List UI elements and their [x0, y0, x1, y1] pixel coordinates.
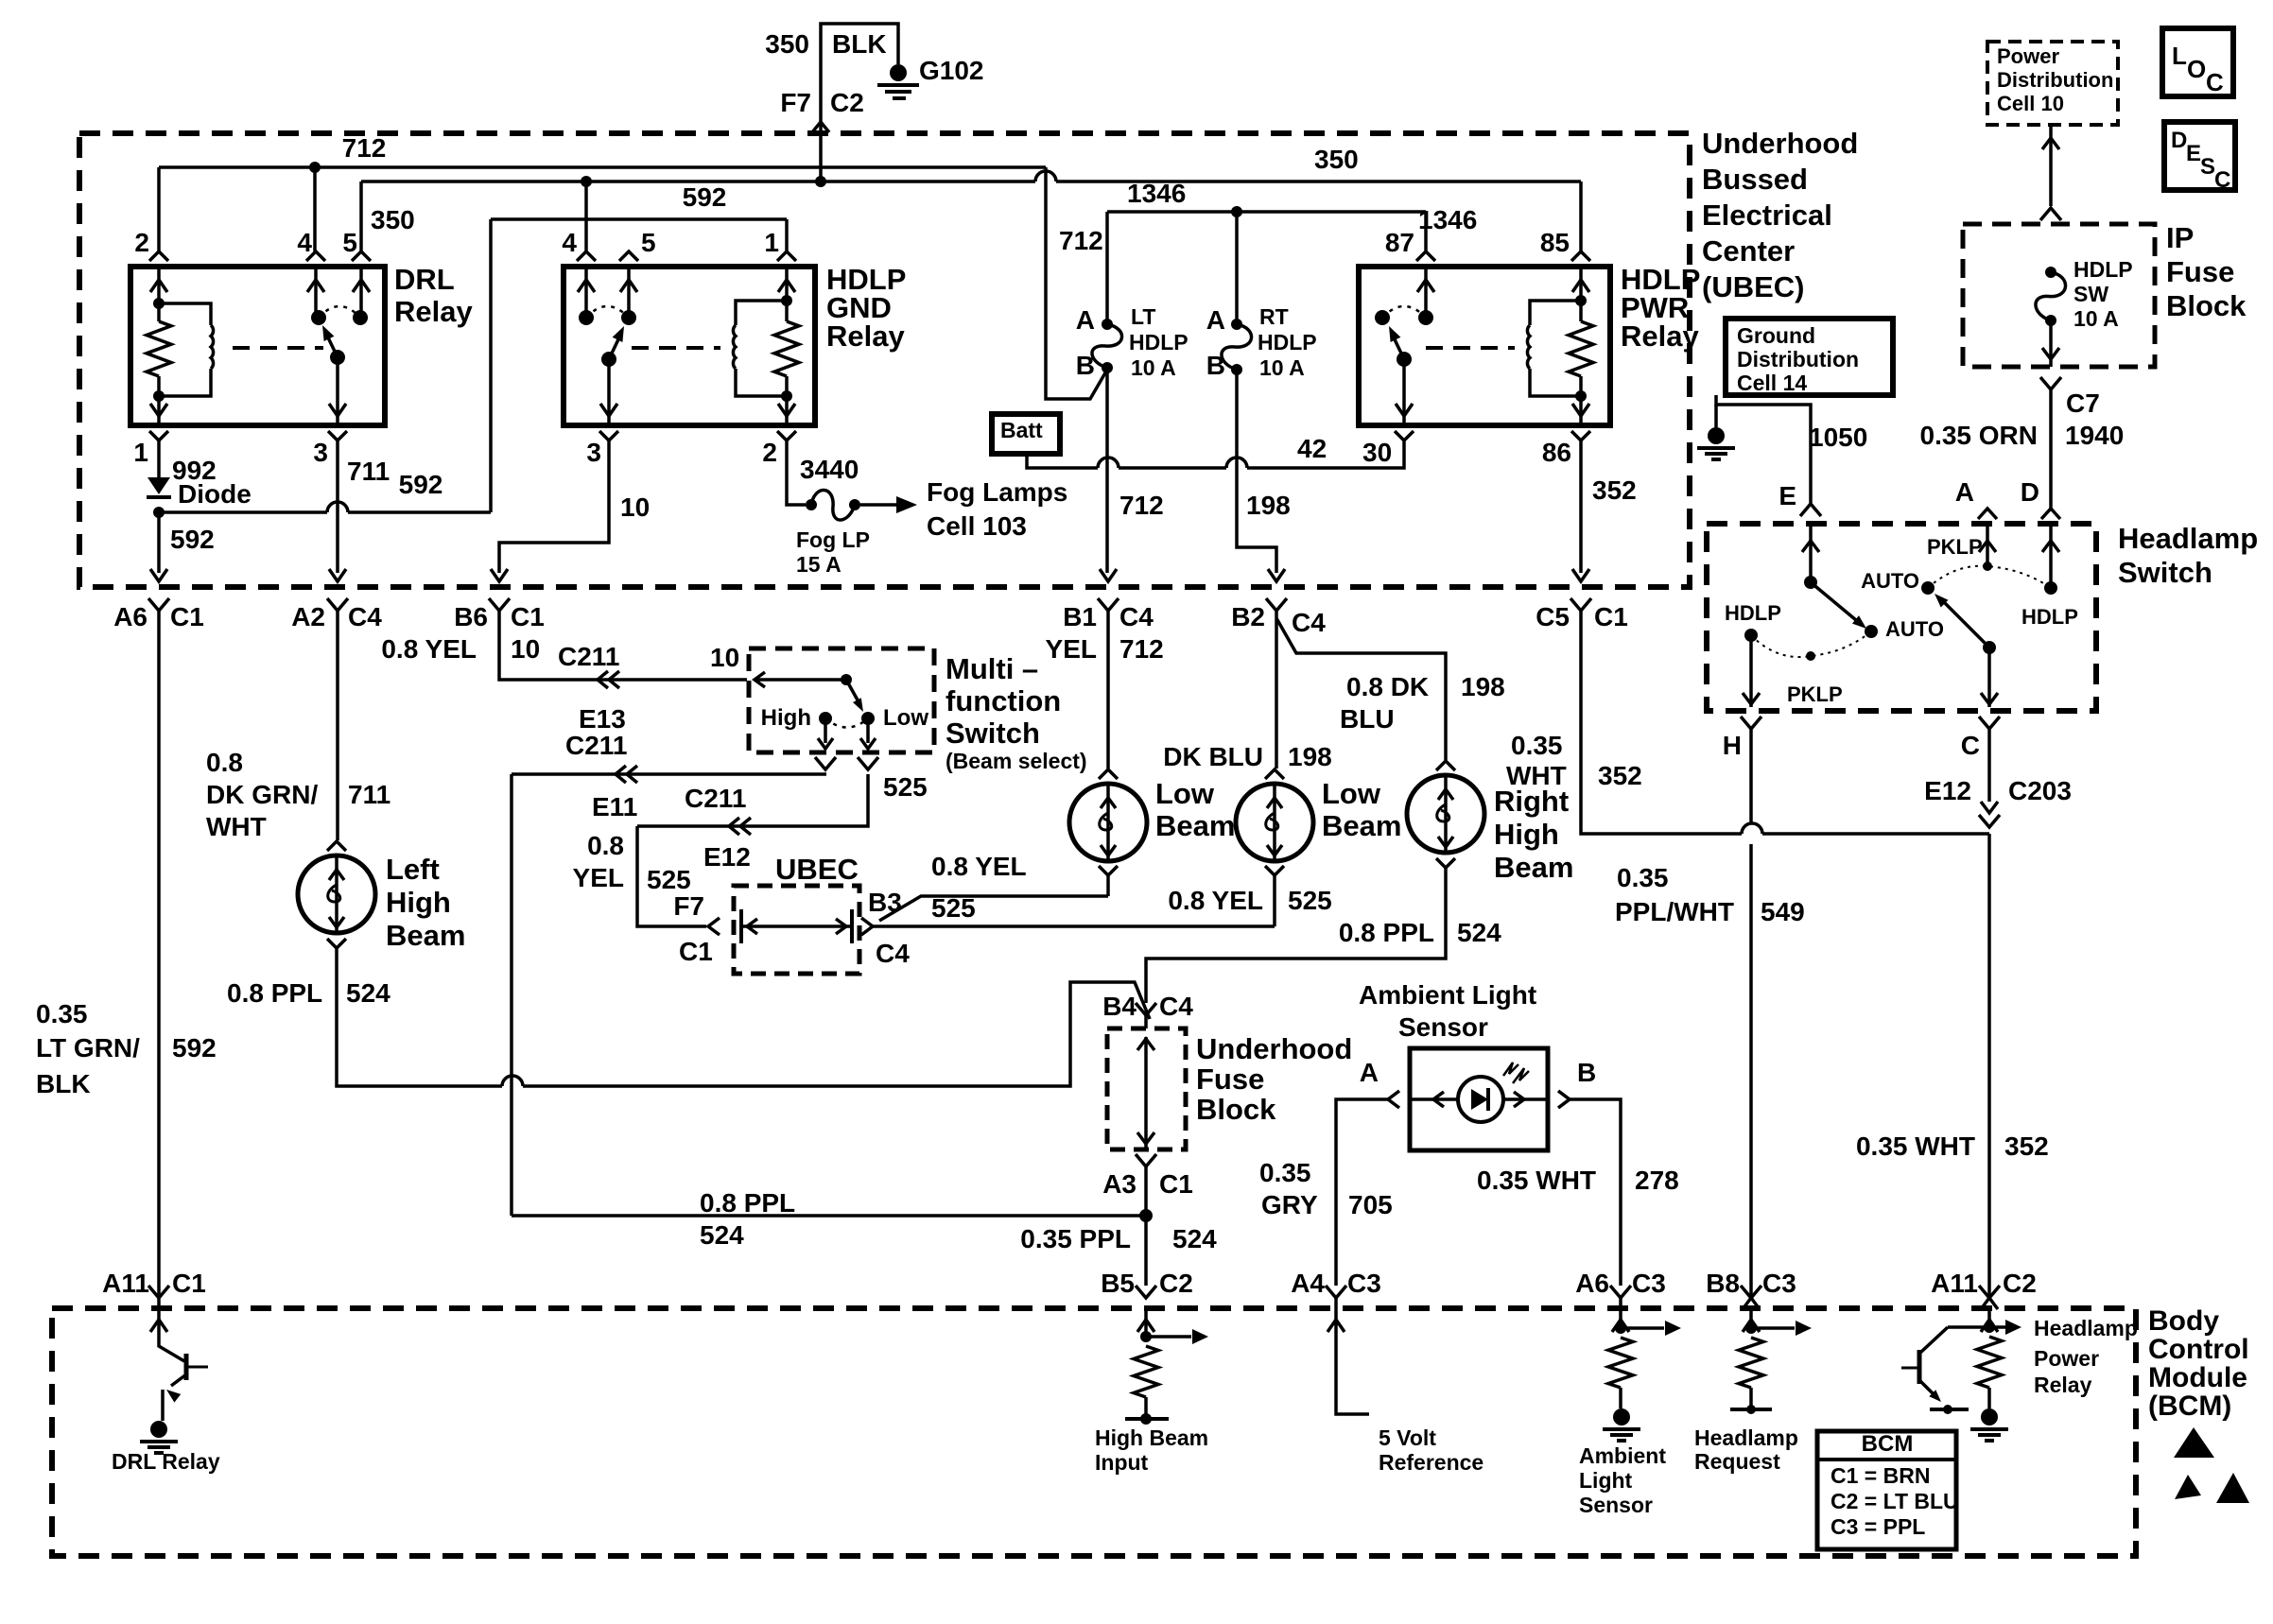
svg-text:C211: C211	[565, 731, 627, 760]
svg-text:Beam: Beam	[1322, 809, 1401, 842]
svg-text:C203: C203	[2008, 776, 2072, 805]
svg-text:Left: Left	[386, 853, 440, 886]
svg-text:F7: F7	[780, 88, 811, 117]
svg-text:A6: A6	[113, 602, 147, 631]
svg-text:Fuse: Fuse	[2166, 255, 2234, 288]
svg-text:C4: C4	[1119, 602, 1154, 631]
svg-text:A: A	[1206, 305, 1225, 335]
svg-text:C1 = BRN: C1 = BRN	[1831, 1463, 1930, 1488]
svg-text:Relay: Relay	[394, 295, 473, 328]
svg-text:C: C	[2206, 68, 2224, 96]
svg-text:Body: Body	[2148, 1305, 2219, 1337]
svg-text:350: 350	[1314, 145, 1359, 174]
svg-text:C211: C211	[558, 642, 619, 671]
svg-text:B4: B4	[1102, 992, 1136, 1021]
svg-text:352: 352	[1598, 761, 1642, 790]
svg-text:Switch: Switch	[946, 717, 1040, 750]
svg-text:Reference: Reference	[1379, 1450, 1484, 1475]
svg-text:Bussed: Bussed	[1702, 163, 1808, 196]
svg-text:RT: RT	[1259, 304, 1289, 329]
svg-text:G102: G102	[919, 56, 984, 85]
svg-text:Center: Center	[1702, 234, 1795, 268]
svg-text:C1: C1	[170, 602, 204, 631]
svg-text:711: 711	[347, 457, 390, 486]
svg-text:Request: Request	[1694, 1449, 1780, 1474]
svg-text:High Beam: High Beam	[1095, 1425, 1208, 1450]
svg-text:3440: 3440	[800, 455, 859, 484]
svg-text:549: 549	[1761, 897, 1805, 926]
svg-text:E: E	[1778, 481, 1796, 510]
svg-text:C3: C3	[1762, 1269, 1796, 1298]
svg-text:Ambient Light: Ambient Light	[1359, 980, 1536, 1010]
svg-text:Ambient: Ambient	[1579, 1443, 1666, 1468]
svg-text:0.35 WHT: 0.35 WHT	[1856, 1132, 1975, 1161]
svg-text:HDLP: HDLP	[1129, 330, 1189, 354]
svg-text:(BCM): (BCM)	[2148, 1391, 2231, 1422]
svg-text:Switch: Switch	[2118, 556, 2212, 589]
svg-text:B: B	[1076, 351, 1095, 380]
svg-text:2: 2	[762, 438, 777, 467]
svg-text:352: 352	[1592, 475, 1637, 505]
svg-text:Batt: Batt	[1000, 418, 1043, 442]
svg-text:Relay: Relay	[2034, 1373, 2092, 1397]
svg-text:10 A: 10 A	[1131, 355, 1176, 380]
svg-text:S: S	[2200, 154, 2215, 180]
svg-text:HDLP: HDLP	[2073, 257, 2133, 282]
svg-text:0.8 YEL: 0.8 YEL	[381, 634, 477, 664]
svg-text:High: High	[1494, 818, 1559, 851]
svg-text:592: 592	[172, 1033, 217, 1063]
svg-text:C7: C7	[2066, 389, 2100, 418]
svg-text:B3: B3	[868, 888, 902, 917]
svg-text:0.8 YEL: 0.8 YEL	[931, 852, 1027, 881]
svg-text:0.35: 0.35	[1259, 1158, 1311, 1187]
svg-text:0.35 WHT: 0.35 WHT	[1477, 1166, 1596, 1195]
svg-text:BLK: BLK	[36, 1069, 91, 1098]
svg-text:Low: Low	[1322, 777, 1381, 810]
svg-text:4: 4	[297, 228, 312, 257]
svg-text:10: 10	[620, 492, 650, 522]
svg-text:C1: C1	[679, 937, 713, 966]
svg-text:712: 712	[1119, 634, 1164, 664]
svg-text:C2: C2	[2003, 1269, 2037, 1298]
svg-text:DRL: DRL	[394, 263, 455, 296]
svg-text:Distribution: Distribution	[1997, 68, 2113, 92]
svg-text:0.35: 0.35	[36, 999, 88, 1028]
svg-text:Power: Power	[1997, 44, 2059, 68]
svg-text:525: 525	[1288, 886, 1332, 915]
svg-text:712: 712	[342, 133, 387, 163]
svg-text:352: 352	[2004, 1132, 2049, 1161]
svg-text:Distribution: Distribution	[1737, 347, 1859, 371]
svg-text:DRL Relay: DRL Relay	[112, 1449, 220, 1474]
svg-text:A6: A6	[1575, 1269, 1609, 1298]
svg-text:High: High	[761, 705, 811, 731]
svg-text:BLK: BLK	[832, 29, 887, 59]
svg-text:Fog Lamps: Fog Lamps	[927, 477, 1067, 507]
svg-text:DK GRN/: DK GRN/	[206, 780, 318, 809]
svg-text:592: 592	[683, 182, 727, 212]
svg-text:0.35: 0.35	[1511, 731, 1563, 760]
svg-text:LT GRN/: LT GRN/	[36, 1033, 140, 1063]
svg-text:BCM: BCM	[1862, 1431, 1914, 1457]
svg-text:198: 198	[1246, 491, 1291, 520]
svg-text:SW: SW	[2073, 282, 2108, 306]
svg-text:350: 350	[765, 29, 809, 59]
svg-text:198: 198	[1288, 742, 1332, 771]
svg-text:LT: LT	[1131, 304, 1155, 329]
svg-text:Beam: Beam	[1494, 851, 1573, 884]
svg-text:YEL: YEL	[573, 863, 624, 892]
svg-text:30: 30	[1362, 438, 1392, 467]
svg-text:C1: C1	[1594, 602, 1628, 631]
svg-text:B6: B6	[454, 602, 488, 631]
svg-text:C: C	[2214, 167, 2230, 193]
svg-text:Headlamp: Headlamp	[1694, 1425, 1798, 1450]
svg-text:C3 = PPL: C3 = PPL	[1831, 1514, 1925, 1539]
svg-text:B5: B5	[1101, 1269, 1135, 1298]
svg-text:E12: E12	[703, 842, 751, 872]
svg-text:C4: C4	[1159, 992, 1193, 1021]
svg-text:UBEC: UBEC	[775, 853, 859, 886]
svg-text:C3: C3	[1632, 1269, 1666, 1298]
svg-text:B: B	[1206, 351, 1225, 380]
svg-text:E12: E12	[1924, 776, 1971, 805]
svg-text:(UBEC): (UBEC)	[1702, 270, 1805, 303]
svg-text:5: 5	[342, 228, 357, 257]
svg-text:A2: A2	[291, 602, 325, 631]
svg-text:BLU: BLU	[1340, 704, 1395, 734]
svg-text:525: 525	[931, 893, 976, 923]
svg-text:Multi –: Multi –	[946, 652, 1038, 685]
svg-text:YEL: YEL	[1046, 634, 1097, 664]
svg-text:2: 2	[134, 228, 149, 257]
svg-text:C211: C211	[685, 784, 746, 813]
svg-text:A: A	[1076, 305, 1095, 335]
svg-text:3: 3	[586, 438, 601, 467]
svg-text:C4: C4	[348, 602, 382, 631]
svg-text:10 A: 10 A	[2073, 306, 2119, 331]
svg-text:1050: 1050	[1809, 423, 1867, 452]
svg-text:Beam: Beam	[1155, 809, 1235, 842]
svg-text:E13: E13	[579, 704, 626, 734]
svg-text:B: B	[1577, 1058, 1596, 1087]
svg-text:10: 10	[710, 643, 739, 672]
svg-text:Underhood: Underhood	[1702, 127, 1858, 160]
svg-text:E: E	[2186, 141, 2201, 166]
svg-text:HDLP: HDLP	[2021, 605, 2078, 629]
svg-text:A: A	[1955, 477, 1974, 507]
svg-text:PKLP: PKLP	[1927, 535, 1983, 559]
svg-text:HDLP: HDLP	[1258, 330, 1317, 354]
svg-text:524: 524	[346, 978, 390, 1008]
svg-text:0.8 PPL: 0.8 PPL	[227, 978, 322, 1008]
svg-text:Power: Power	[2034, 1346, 2099, 1371]
svg-text:C1: C1	[172, 1269, 206, 1298]
svg-text:524: 524	[1457, 918, 1501, 947]
svg-text:Relay: Relay	[826, 320, 905, 353]
svg-text:B8: B8	[1706, 1269, 1740, 1298]
svg-text:B1: B1	[1063, 602, 1097, 631]
svg-text:5 Volt: 5 Volt	[1379, 1425, 1436, 1450]
svg-text:85: 85	[1540, 228, 1570, 257]
svg-text:Cell 10: Cell 10	[1997, 92, 2064, 115]
svg-text:0.8: 0.8	[206, 748, 243, 777]
svg-text:A11: A11	[1931, 1269, 1978, 1298]
svg-text:C2 = LT BLU: C2 = LT BLU	[1831, 1489, 1959, 1513]
svg-text:3: 3	[313, 438, 328, 467]
svg-text:87: 87	[1385, 228, 1414, 257]
svg-text:DK BLU: DK BLU	[1163, 742, 1263, 771]
svg-text:E11: E11	[592, 792, 637, 821]
svg-text:Diode: Diode	[178, 479, 252, 509]
svg-text:C3: C3	[1347, 1269, 1381, 1298]
svg-text:0.8: 0.8	[587, 831, 624, 860]
svg-text:0.8 YEL: 0.8 YEL	[1168, 886, 1263, 915]
svg-text:PPL/WHT: PPL/WHT	[1615, 897, 1734, 926]
svg-text:Control: Control	[2148, 1334, 2249, 1365]
svg-text:712: 712	[1059, 226, 1103, 255]
svg-text:L: L	[2172, 42, 2187, 70]
svg-text:PKLP: PKLP	[1787, 682, 1843, 706]
svg-text:(Beam select): (Beam select)	[946, 749, 1087, 773]
svg-text:Ground: Ground	[1737, 323, 1815, 348]
svg-text:Headlamp: Headlamp	[2034, 1316, 2138, 1340]
svg-text:O: O	[2187, 55, 2206, 83]
svg-text:Relay: Relay	[1621, 320, 1699, 353]
svg-text:Light: Light	[1579, 1468, 1633, 1493]
svg-text:C5: C5	[1536, 602, 1570, 631]
svg-text:F7: F7	[673, 891, 704, 921]
svg-text:function: function	[946, 684, 1061, 717]
svg-text:0.35: 0.35	[1617, 863, 1669, 892]
svg-text:C2: C2	[1159, 1269, 1193, 1298]
svg-text:Low: Low	[1155, 777, 1215, 810]
svg-text:Module: Module	[2148, 1362, 2247, 1393]
svg-text:A: A	[1360, 1058, 1379, 1087]
svg-text:Sensor: Sensor	[1579, 1493, 1653, 1517]
svg-text:1940: 1940	[2065, 421, 2124, 450]
svg-text:705: 705	[1348, 1190, 1393, 1219]
svg-text:1: 1	[133, 438, 148, 467]
svg-text:711: 711	[348, 780, 390, 809]
svg-text:0.8 PPL: 0.8 PPL	[1339, 918, 1434, 947]
svg-text:Beam: Beam	[386, 919, 465, 952]
svg-text:592: 592	[399, 470, 443, 499]
svg-text:Underhood: Underhood	[1196, 1032, 1352, 1065]
svg-text:C1: C1	[511, 602, 545, 631]
svg-text:525: 525	[647, 865, 691, 894]
svg-text:A3: A3	[1102, 1169, 1136, 1199]
svg-text:Sensor: Sensor	[1398, 1012, 1488, 1042]
svg-text:AUTO: AUTO	[1885, 617, 1944, 641]
svg-text:High: High	[386, 886, 451, 919]
svg-text:WHT: WHT	[1506, 761, 1567, 790]
svg-text:WHT: WHT	[206, 812, 267, 841]
svg-text:B2: B2	[1231, 602, 1265, 631]
svg-text:H: H	[1723, 731, 1742, 760]
svg-text:350: 350	[371, 205, 415, 234]
svg-text:Block: Block	[2166, 289, 2247, 322]
svg-text:524: 524	[1172, 1224, 1217, 1253]
svg-text:C: C	[1961, 731, 1980, 760]
svg-text:1: 1	[764, 228, 779, 257]
svg-text:Electrical: Electrical	[1702, 199, 1832, 232]
svg-text:0.35 ORN: 0.35 ORN	[1920, 421, 2039, 450]
svg-text:278: 278	[1635, 1166, 1679, 1195]
svg-text:Fog LP: Fog LP	[796, 527, 870, 552]
svg-text:524: 524	[700, 1220, 744, 1250]
svg-text:C1: C1	[1159, 1169, 1193, 1199]
svg-text:525: 525	[883, 772, 928, 802]
svg-text:A11: A11	[102, 1269, 149, 1298]
svg-text:592: 592	[170, 525, 215, 554]
svg-text:GRY: GRY	[1261, 1190, 1318, 1219]
svg-text:0.8 PPL: 0.8 PPL	[700, 1188, 795, 1218]
svg-text:IP: IP	[2166, 221, 2194, 254]
svg-text:Cell 14: Cell 14	[1737, 371, 1807, 395]
svg-text:0.8 DK: 0.8 DK	[1346, 672, 1429, 701]
svg-text:D: D	[2021, 477, 2039, 507]
svg-text:1346: 1346	[1127, 179, 1186, 208]
svg-text:Fuse: Fuse	[1196, 1063, 1264, 1096]
svg-text:42: 42	[1297, 434, 1327, 463]
svg-text:Input: Input	[1095, 1450, 1149, 1475]
svg-text:86: 86	[1542, 438, 1571, 467]
svg-text:Headlamp: Headlamp	[2118, 522, 2258, 555]
svg-text:198: 198	[1461, 672, 1505, 701]
svg-text:Low: Low	[883, 705, 928, 731]
svg-text:Block: Block	[1196, 1093, 1276, 1126]
svg-text:712: 712	[1119, 491, 1164, 520]
svg-text:D: D	[2171, 128, 2187, 153]
svg-text:HDLP: HDLP	[1725, 601, 1781, 625]
svg-text:A4: A4	[1291, 1269, 1325, 1298]
svg-text:C2: C2	[830, 88, 864, 117]
svg-text:4: 4	[562, 228, 577, 257]
svg-text:15 A: 15 A	[796, 552, 842, 577]
svg-text:AUTO: AUTO	[1861, 569, 1919, 593]
svg-text:10 A: 10 A	[1259, 355, 1305, 380]
svg-text:0.35 PPL: 0.35 PPL	[1020, 1224, 1131, 1253]
svg-text:10: 10	[511, 634, 540, 664]
svg-text:Cell 103: Cell 103	[927, 511, 1027, 541]
svg-text:C4: C4	[1292, 608, 1326, 637]
svg-text:5: 5	[641, 228, 656, 257]
svg-text:C4: C4	[876, 939, 910, 968]
